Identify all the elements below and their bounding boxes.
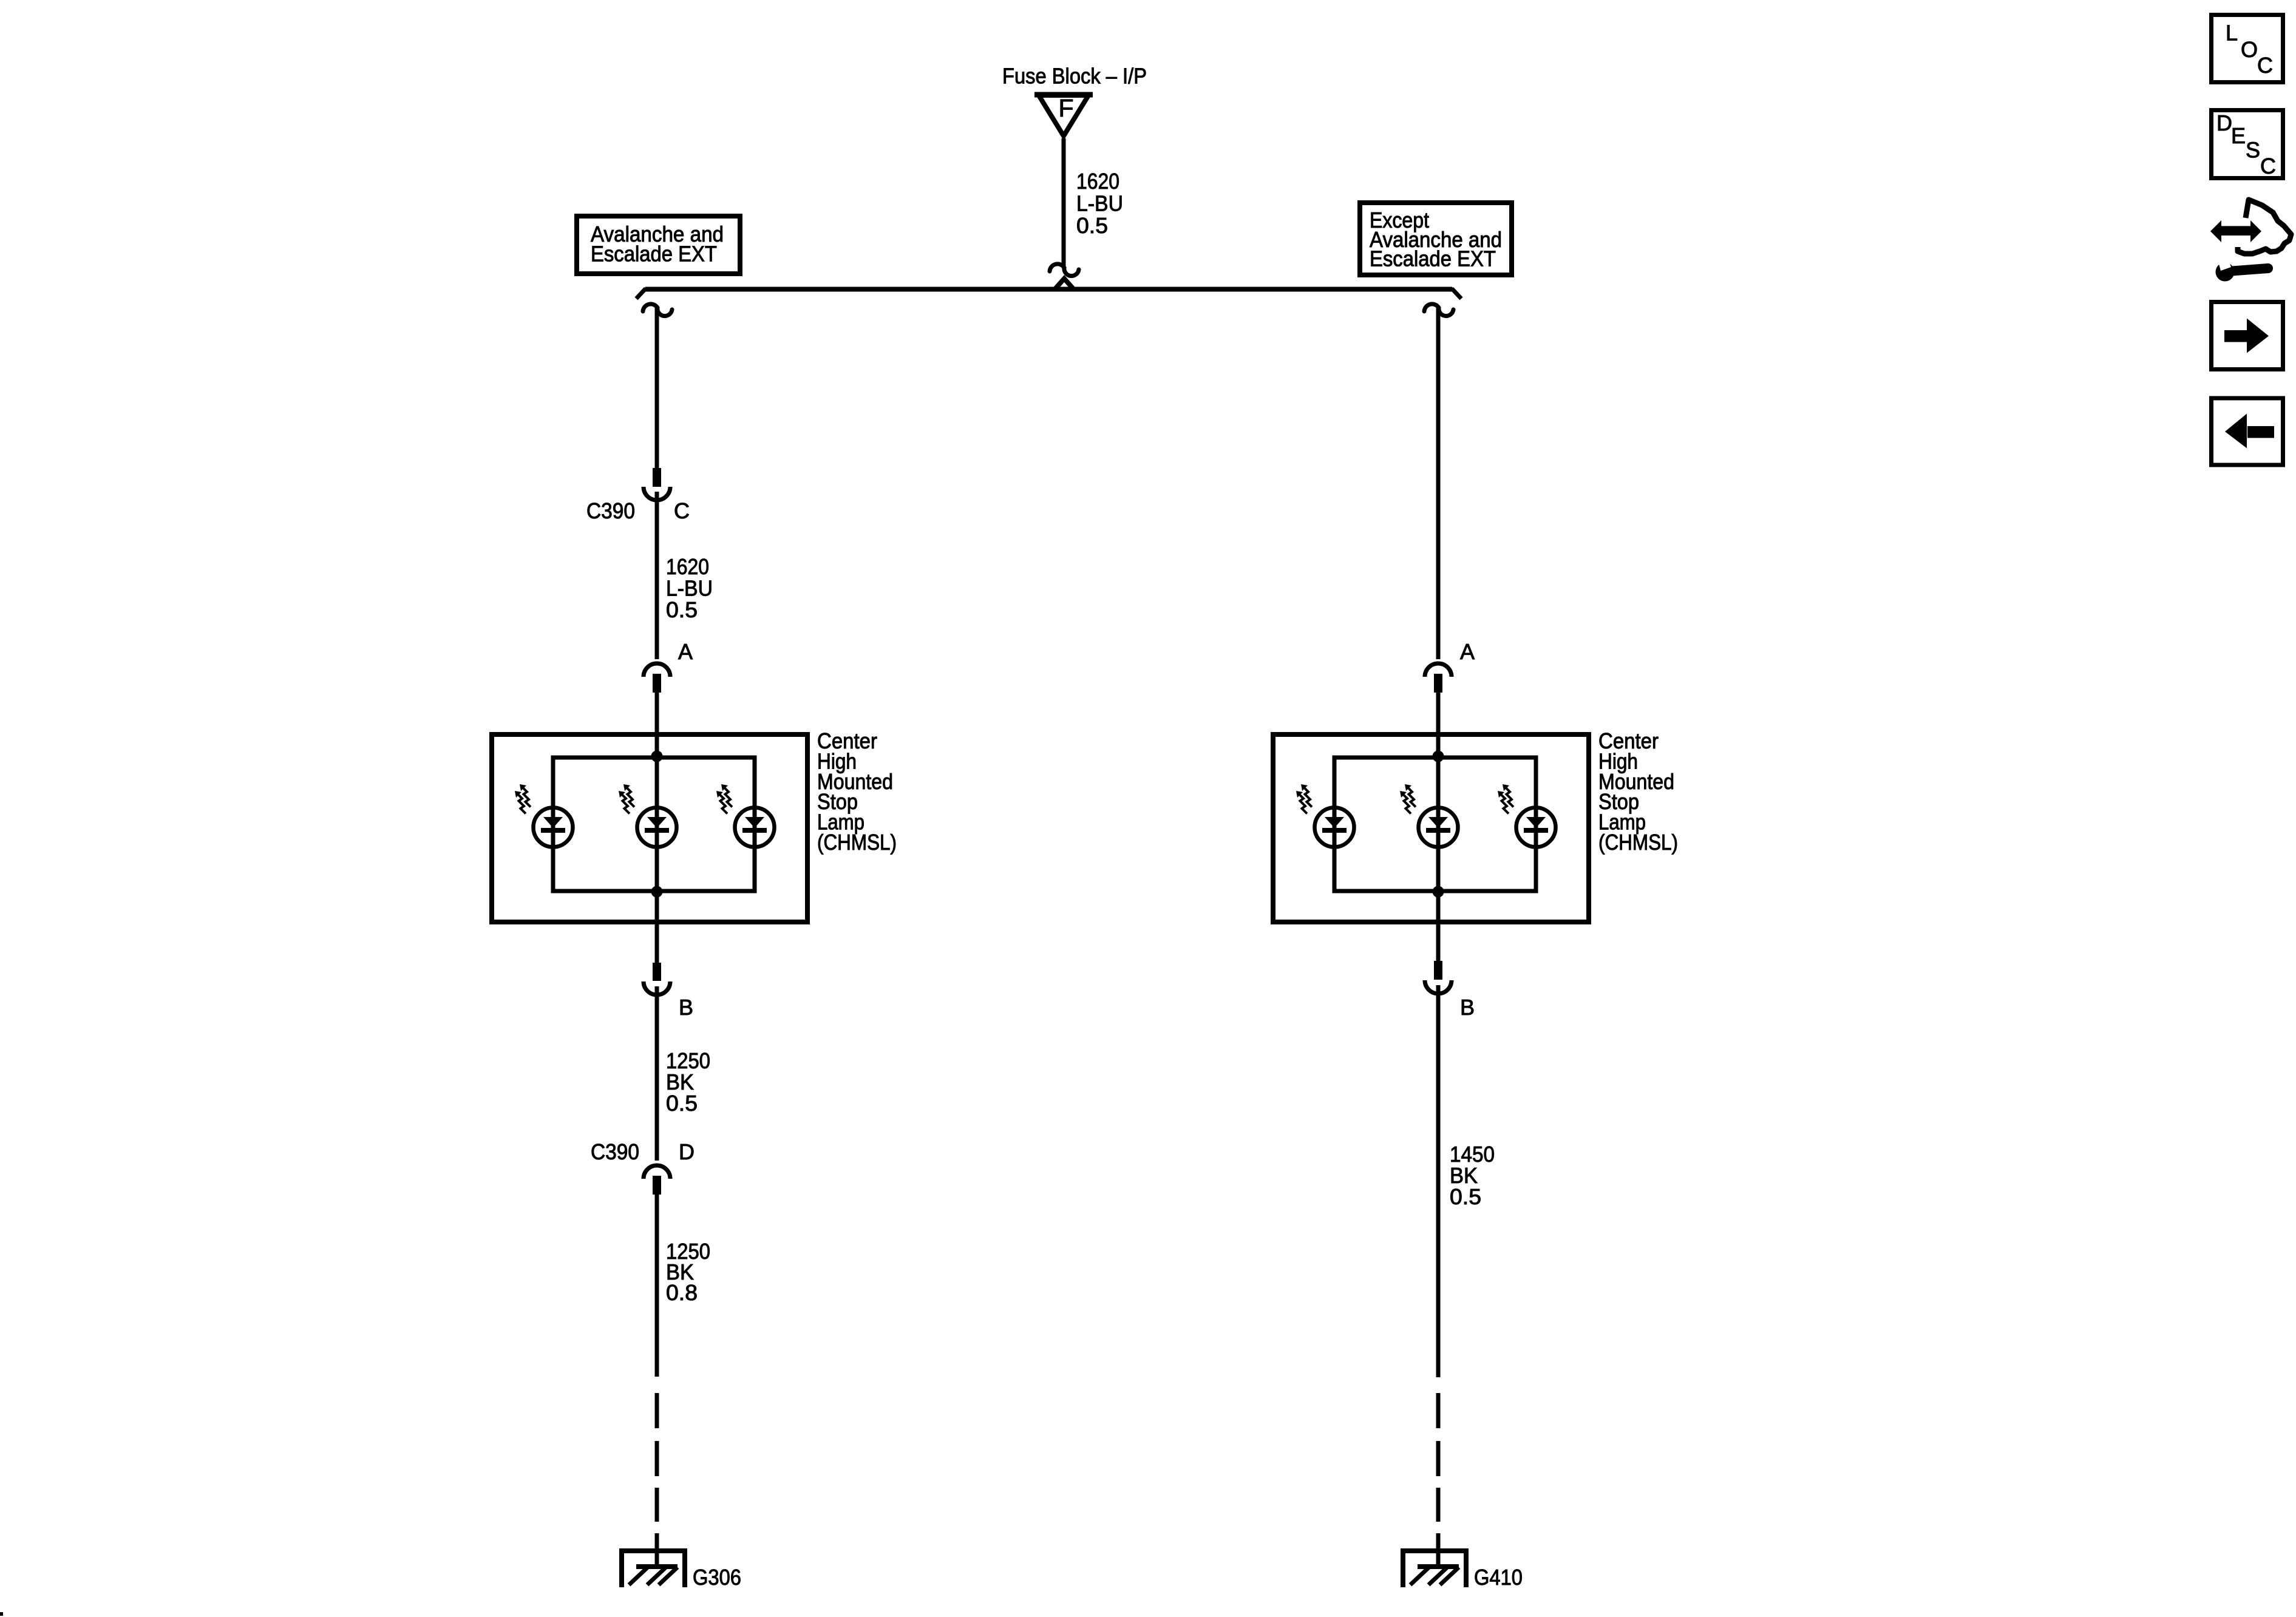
svg-text:Escalade EXT: Escalade EXT — [591, 242, 717, 266]
svg-text:0.5: 0.5 — [1076, 213, 1108, 238]
svg-text:C: C — [2257, 53, 2273, 78]
svg-text:O: O — [2241, 37, 2258, 62]
svg-text:A: A — [1460, 639, 1475, 664]
svg-text:Escalade EXT: Escalade EXT — [1370, 246, 1496, 271]
svg-text:B: B — [679, 995, 693, 1020]
svg-text:L-BU: L-BU — [1076, 191, 1123, 215]
svg-text:C390: C390 — [591, 1139, 639, 1164]
svg-text:0.5: 0.5 — [666, 1091, 698, 1116]
svg-text:1620: 1620 — [1076, 169, 1119, 194]
svg-text:C: C — [674, 498, 690, 523]
svg-text:D: D — [679, 1139, 695, 1164]
svg-text:D: D — [2216, 110, 2232, 135]
svg-text:0.5: 0.5 — [666, 597, 698, 622]
svg-text:S: S — [2246, 138, 2260, 163]
svg-text:G306: G306 — [693, 1565, 741, 1590]
svg-text:F: F — [1058, 94, 1073, 122]
svg-text:G410: G410 — [1474, 1565, 1523, 1590]
svg-text:0.5: 0.5 — [1450, 1184, 1481, 1209]
svg-text:(CHMSL): (CHMSL) — [1598, 830, 1678, 855]
svg-text:C: C — [2260, 154, 2276, 178]
svg-text:Fuse Block – I/P: Fuse Block – I/P — [1002, 64, 1147, 89]
svg-text:A: A — [678, 639, 693, 664]
svg-text:L: L — [2226, 21, 2238, 46]
svg-text:E: E — [2231, 123, 2246, 148]
svg-text:0.8: 0.8 — [666, 1280, 698, 1305]
svg-text:C390: C390 — [586, 498, 635, 523]
svg-text:(CHMSL): (CHMSL) — [817, 830, 897, 855]
svg-text:B: B — [1460, 995, 1475, 1020]
